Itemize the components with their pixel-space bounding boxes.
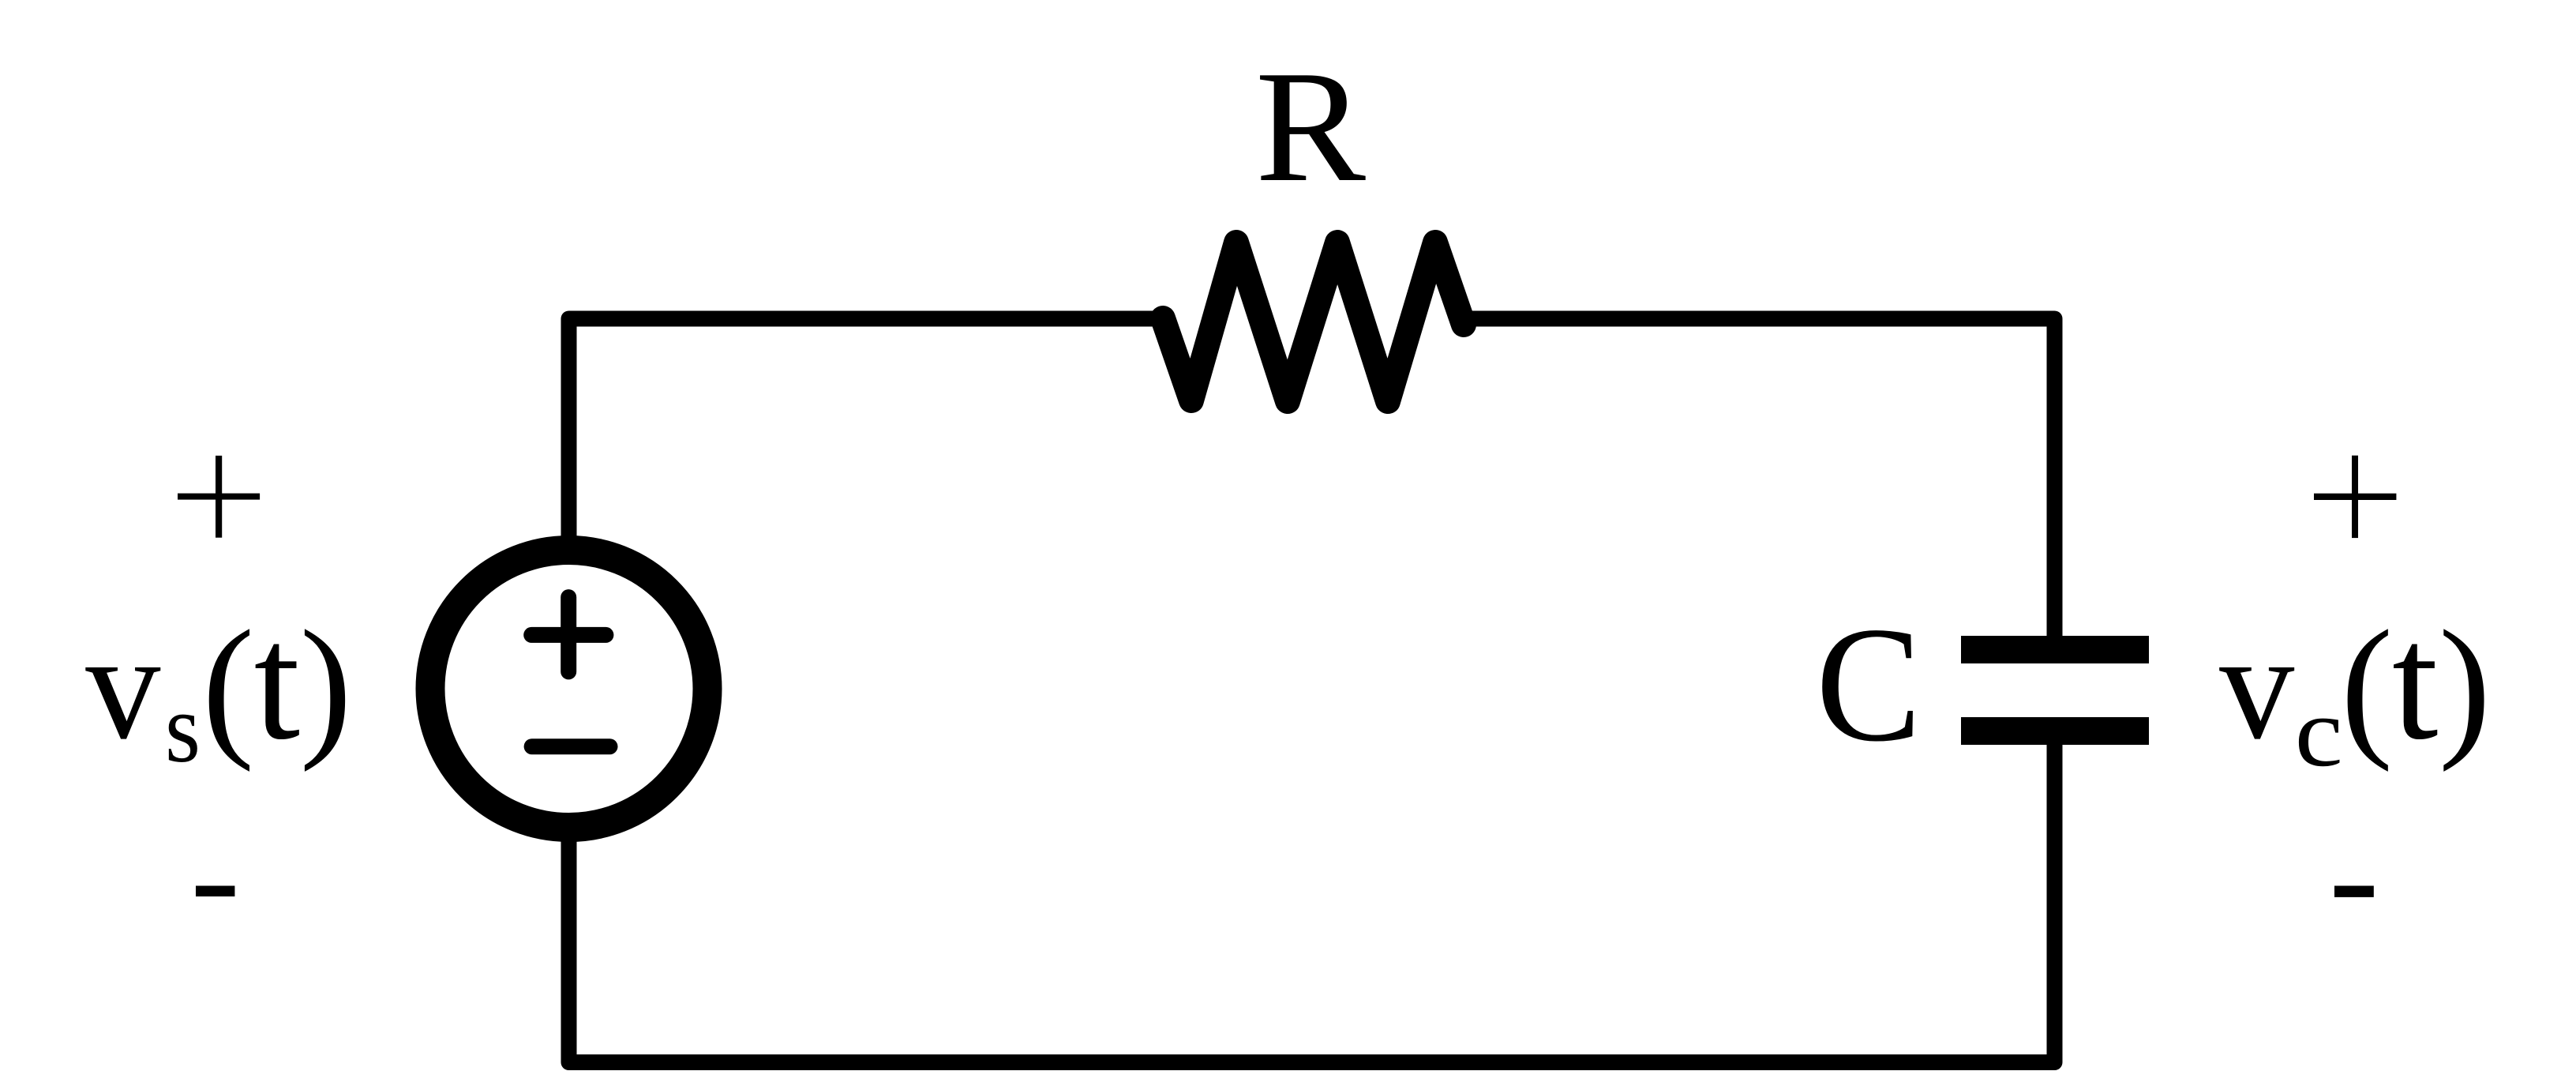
label vc(t): subscript c bbox=[2295, 678, 2343, 787]
voltage source V1: circle bbox=[430, 551, 707, 828]
label vc(t): open parenthesis bbox=[2341, 599, 2393, 773]
capacitor C: top plate bbox=[1961, 636, 2149, 663]
wire: top-left segment from resistor left end, around corner, down to source top bbox=[569, 319, 1157, 538]
svg-text:C: C bbox=[1816, 594, 1922, 776]
svg-text:(: ( bbox=[202, 599, 254, 773]
label vs(t): source voltage, v glyph bbox=[85, 602, 160, 771]
label vs(t): t glyph bbox=[254, 589, 300, 774]
svg-text:v: v bbox=[2219, 602, 2294, 771]
label vs(t): open parenthesis bbox=[202, 599, 254, 773]
wire: from source bottom, down left side, along bottom, up right side to capacitor bottom plate bbox=[569, 744, 2055, 1062]
wire: top-right segment from resistor right end, around corner, down to capacitor top plate bbox=[1460, 319, 2055, 638]
label vc(t): t glyph bbox=[2392, 589, 2438, 774]
polarity minus sign at capacitor (bottom right) bbox=[2334, 886, 2374, 897]
svg-text:): ) bbox=[2439, 599, 2491, 773]
label vs(t): subscript s bbox=[165, 675, 201, 784]
capacitor C: bottom plate bbox=[1961, 717, 2149, 745]
svg-text:c: c bbox=[2295, 678, 2343, 787]
svg-text:R: R bbox=[1255, 38, 1366, 215]
svg-text:v: v bbox=[85, 602, 160, 771]
label vc(t): close parenthesis bbox=[2439, 599, 2491, 773]
label vc(t): capacitor voltage, v glyph bbox=[2219, 602, 2294, 771]
polarity plus sign at capacitor (top right) bbox=[2314, 456, 2396, 538]
svg-text:t: t bbox=[254, 589, 300, 774]
polarity plus sign at source (top left) bbox=[178, 456, 260, 538]
label C (capacitor value label) bbox=[1816, 594, 1922, 776]
svg-text:s: s bbox=[165, 675, 201, 784]
svg-text:(: ( bbox=[2341, 599, 2393, 773]
voltage source V1: plus symbol inside circle bbox=[531, 597, 606, 671]
svg-text:t: t bbox=[2392, 589, 2438, 774]
resistor R: zigzag body bbox=[1163, 242, 1464, 401]
voltage source V1: minus symbol inside circle bbox=[532, 738, 610, 754]
label vs(t): close parenthesis bbox=[300, 599, 352, 773]
svg-text:): ) bbox=[300, 599, 352, 773]
polarity minus sign at source (bottom left) bbox=[196, 886, 234, 897]
label R (resistor value label) bbox=[1255, 38, 1366, 215]
